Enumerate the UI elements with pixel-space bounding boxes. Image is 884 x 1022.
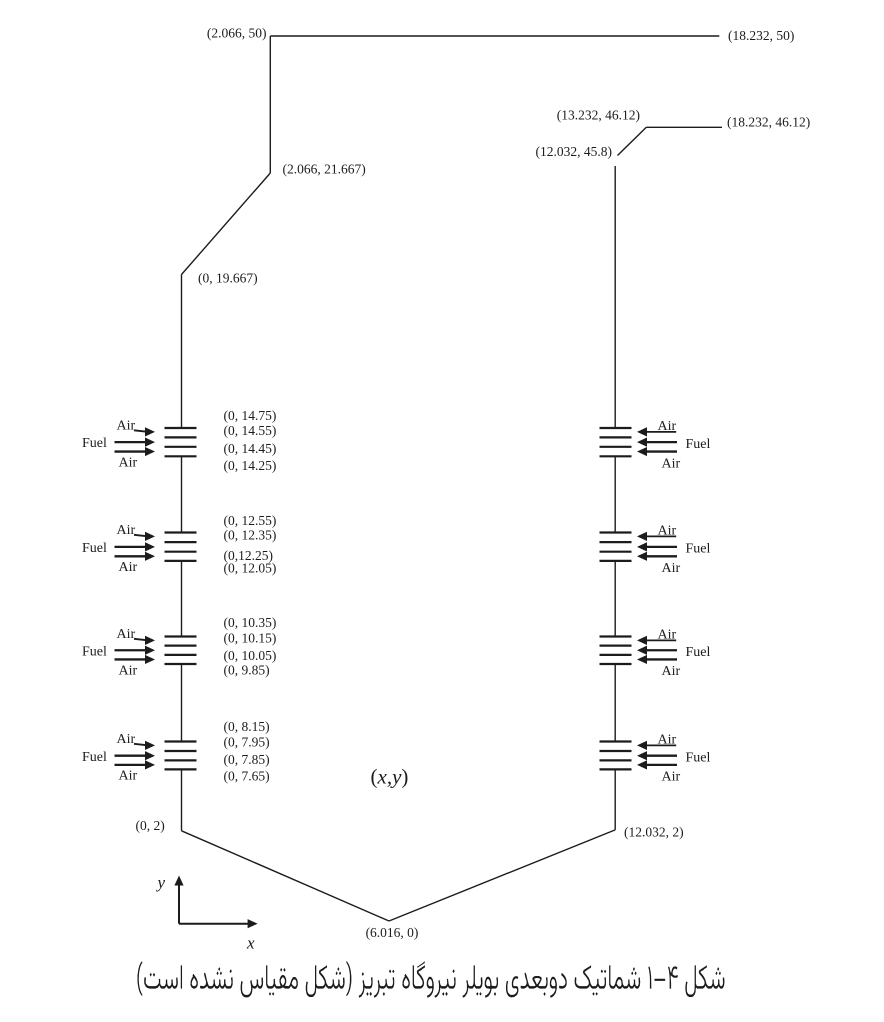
svg-text:x: x — [246, 934, 255, 953]
svg-text:Air: Air — [117, 627, 136, 642]
svg-text:Air: Air — [119, 560, 138, 575]
wall: left water-wall segment 2 — [181, 456, 183, 532]
svg-text:Fuel: Fuel — [686, 542, 711, 557]
svg-text:(0, 9.85): (0, 9.85) — [224, 663, 270, 678]
svg-text:(0, 7.85): (0, 7.85) — [224, 752, 270, 767]
burner R2: Fuel arrow — [646, 546, 678, 548]
burner L2: nozzle tick plates — [165, 531, 197, 533]
burner L1: nozzle tick plates — [165, 427, 197, 429]
svg-text:(12.032, 45.8): (12.032, 45.8) — [536, 144, 613, 159]
svg-text:(18.232, 50): (18.232, 50) — [728, 28, 794, 43]
svg-text:(0, 10.15): (0, 10.15) — [224, 631, 277, 646]
svg-text:Air: Air — [117, 732, 136, 747]
burner L1: lower Air arrow — [115, 450, 147, 452]
burner L2: upper Air arrow — [134, 535, 147, 536]
burner L4: upper Air arrow — [134, 744, 147, 745]
burner L4: Fuel arrow — [115, 755, 147, 757]
burner R1: lower Air arrow — [646, 450, 678, 452]
wall: left water-wall segment 1 — [181, 275, 183, 429]
svg-text:Air: Air — [658, 628, 677, 643]
svg-text:Fuel: Fuel — [686, 751, 711, 766]
burner L4: nozzle tick plates — [165, 740, 197, 742]
svg-text:y: y — [156, 873, 166, 892]
svg-text:(0, 14.45): (0, 14.45) — [224, 441, 277, 456]
burner L2: lower Air arrow — [115, 555, 147, 557]
svg-text:Fuel: Fuel — [686, 645, 711, 660]
svg-text:Air: Air — [662, 561, 681, 576]
axis: x arrow — [179, 923, 249, 925]
wall: upper-left vertical x=2.066 — [269, 36, 271, 173]
svg-text:(0, 7.95): (0, 7.95) — [224, 735, 270, 750]
burner R1: upper Air arrow — [646, 431, 677, 433]
burner R3: upper Air arrow — [646, 639, 677, 641]
wall: left water-wall segment 3 — [181, 561, 183, 637]
burner L1: Fuel arrow — [115, 441, 147, 443]
burner R2: lower Air arrow — [646, 555, 678, 557]
svg-text:Air: Air — [119, 663, 138, 678]
svg-text:Fuel: Fuel — [82, 750, 107, 765]
wall: upper-right horizontal y=46.12 — [646, 126, 722, 128]
axis: y arrow — [178, 884, 180, 924]
burner R2: upper Air arrow — [646, 535, 677, 537]
svg-text:(0, 7.65): (0, 7.65) — [224, 769, 270, 784]
wall: bottom-left hopper slope — [182, 831, 390, 921]
svg-text:(0, 14.55): (0, 14.55) — [224, 423, 277, 438]
burner R3: lower Air arrow — [646, 658, 678, 660]
burner L2: Fuel arrow — [115, 546, 147, 548]
svg-text:(0, 8.15): (0, 8.15) — [224, 719, 270, 734]
wall: right water-wall segment 5 — [614, 769, 616, 830]
wall: top horizontal y=50 — [270, 35, 719, 37]
wall: left water-wall segment 4 — [181, 664, 183, 742]
wall: left water-wall segment 5 — [181, 769, 183, 830]
svg-text:(0, 10.05): (0, 10.05) — [224, 648, 277, 663]
svg-text:Air: Air — [658, 733, 677, 748]
wall: right water-wall segment 1 — [614, 166, 616, 428]
burner L1: upper Air arrow — [134, 430, 147, 431]
burner R4: upper Air arrow — [646, 744, 677, 746]
svg-text:Air: Air — [117, 419, 136, 434]
svg-text:Air: Air — [662, 456, 681, 471]
wall: upper-right slope to (13.232,46.12) — [618, 127, 647, 155]
burner L4: lower Air arrow — [115, 764, 147, 766]
svg-text:Fuel: Fuel — [82, 541, 107, 556]
wall: upper-left slope to (0,19.667) — [182, 173, 271, 275]
svg-text:Air: Air — [119, 769, 138, 784]
svg-text:Fuel: Fuel — [82, 436, 107, 451]
svg-text:(0, 14.75): (0, 14.75) — [224, 408, 277, 423]
svg-text:Air: Air — [658, 524, 677, 539]
svg-text:(0, 2): (0, 2) — [136, 818, 165, 833]
burner L3: lower Air arrow — [115, 658, 147, 660]
wall: right water-wall segment 3 — [614, 561, 616, 637]
svg-text:(12.032, 2): (12.032, 2) — [624, 825, 684, 840]
svg-text:(0, 12.35): (0, 12.35) — [224, 528, 277, 543]
svg-text:(6.016, 0): (6.016, 0) — [366, 925, 419, 940]
wall: bottom-right hopper slope — [389, 830, 615, 921]
burner R4: Fuel arrow — [646, 755, 678, 757]
svg-text:Fuel: Fuel — [82, 644, 107, 659]
wall: right water-wall segment 2 — [614, 456, 616, 532]
svg-text:Air: Air — [658, 419, 677, 434]
svg-text:(0, 10.35): (0, 10.35) — [224, 615, 277, 630]
burner R4: nozzle tick plates — [600, 740, 632, 742]
wall: right water-wall segment 4 — [614, 664, 616, 742]
svg-text:(18.232, 46.12): (18.232, 46.12) — [727, 115, 810, 130]
burner R1: nozzle tick plates — [600, 427, 632, 429]
burner R3: nozzle tick plates — [600, 635, 632, 637]
burner L3: nozzle tick plates — [165, 635, 197, 637]
svg-text:Fuel: Fuel — [686, 437, 711, 452]
caption: figure 4-1 Persian text (traced vector outlines) — [138, 961, 725, 998]
svg-text:(2.066, 50): (2.066, 50) — [207, 26, 267, 41]
svg-text:(2.066, 21.667): (2.066, 21.667) — [283, 162, 366, 177]
burner L3: upper Air arrow — [134, 639, 147, 640]
svg-text:(0, 12.55): (0, 12.55) — [224, 513, 277, 528]
svg-text:(x,y): (x,y) — [371, 765, 409, 789]
svg-text:Air: Air — [119, 456, 138, 471]
svg-text:(0, 19.667): (0, 19.667) — [198, 271, 258, 286]
burner R2: nozzle tick plates — [600, 531, 632, 533]
burner L3: Fuel arrow — [115, 649, 147, 651]
svg-text:Air: Air — [662, 664, 681, 679]
burner R3: Fuel arrow — [646, 649, 678, 651]
svg-text:(13.232, 46.12): (13.232, 46.12) — [557, 108, 640, 123]
burner R4: lower Air arrow — [646, 764, 678, 766]
svg-text:(0, 12.05): (0, 12.05) — [224, 561, 277, 576]
svg-text:Air: Air — [117, 523, 136, 538]
svg-text:Air: Air — [662, 769, 681, 784]
burner R1: Fuel arrow — [646, 441, 678, 443]
svg-text:(0, 14.25): (0, 14.25) — [224, 458, 277, 473]
